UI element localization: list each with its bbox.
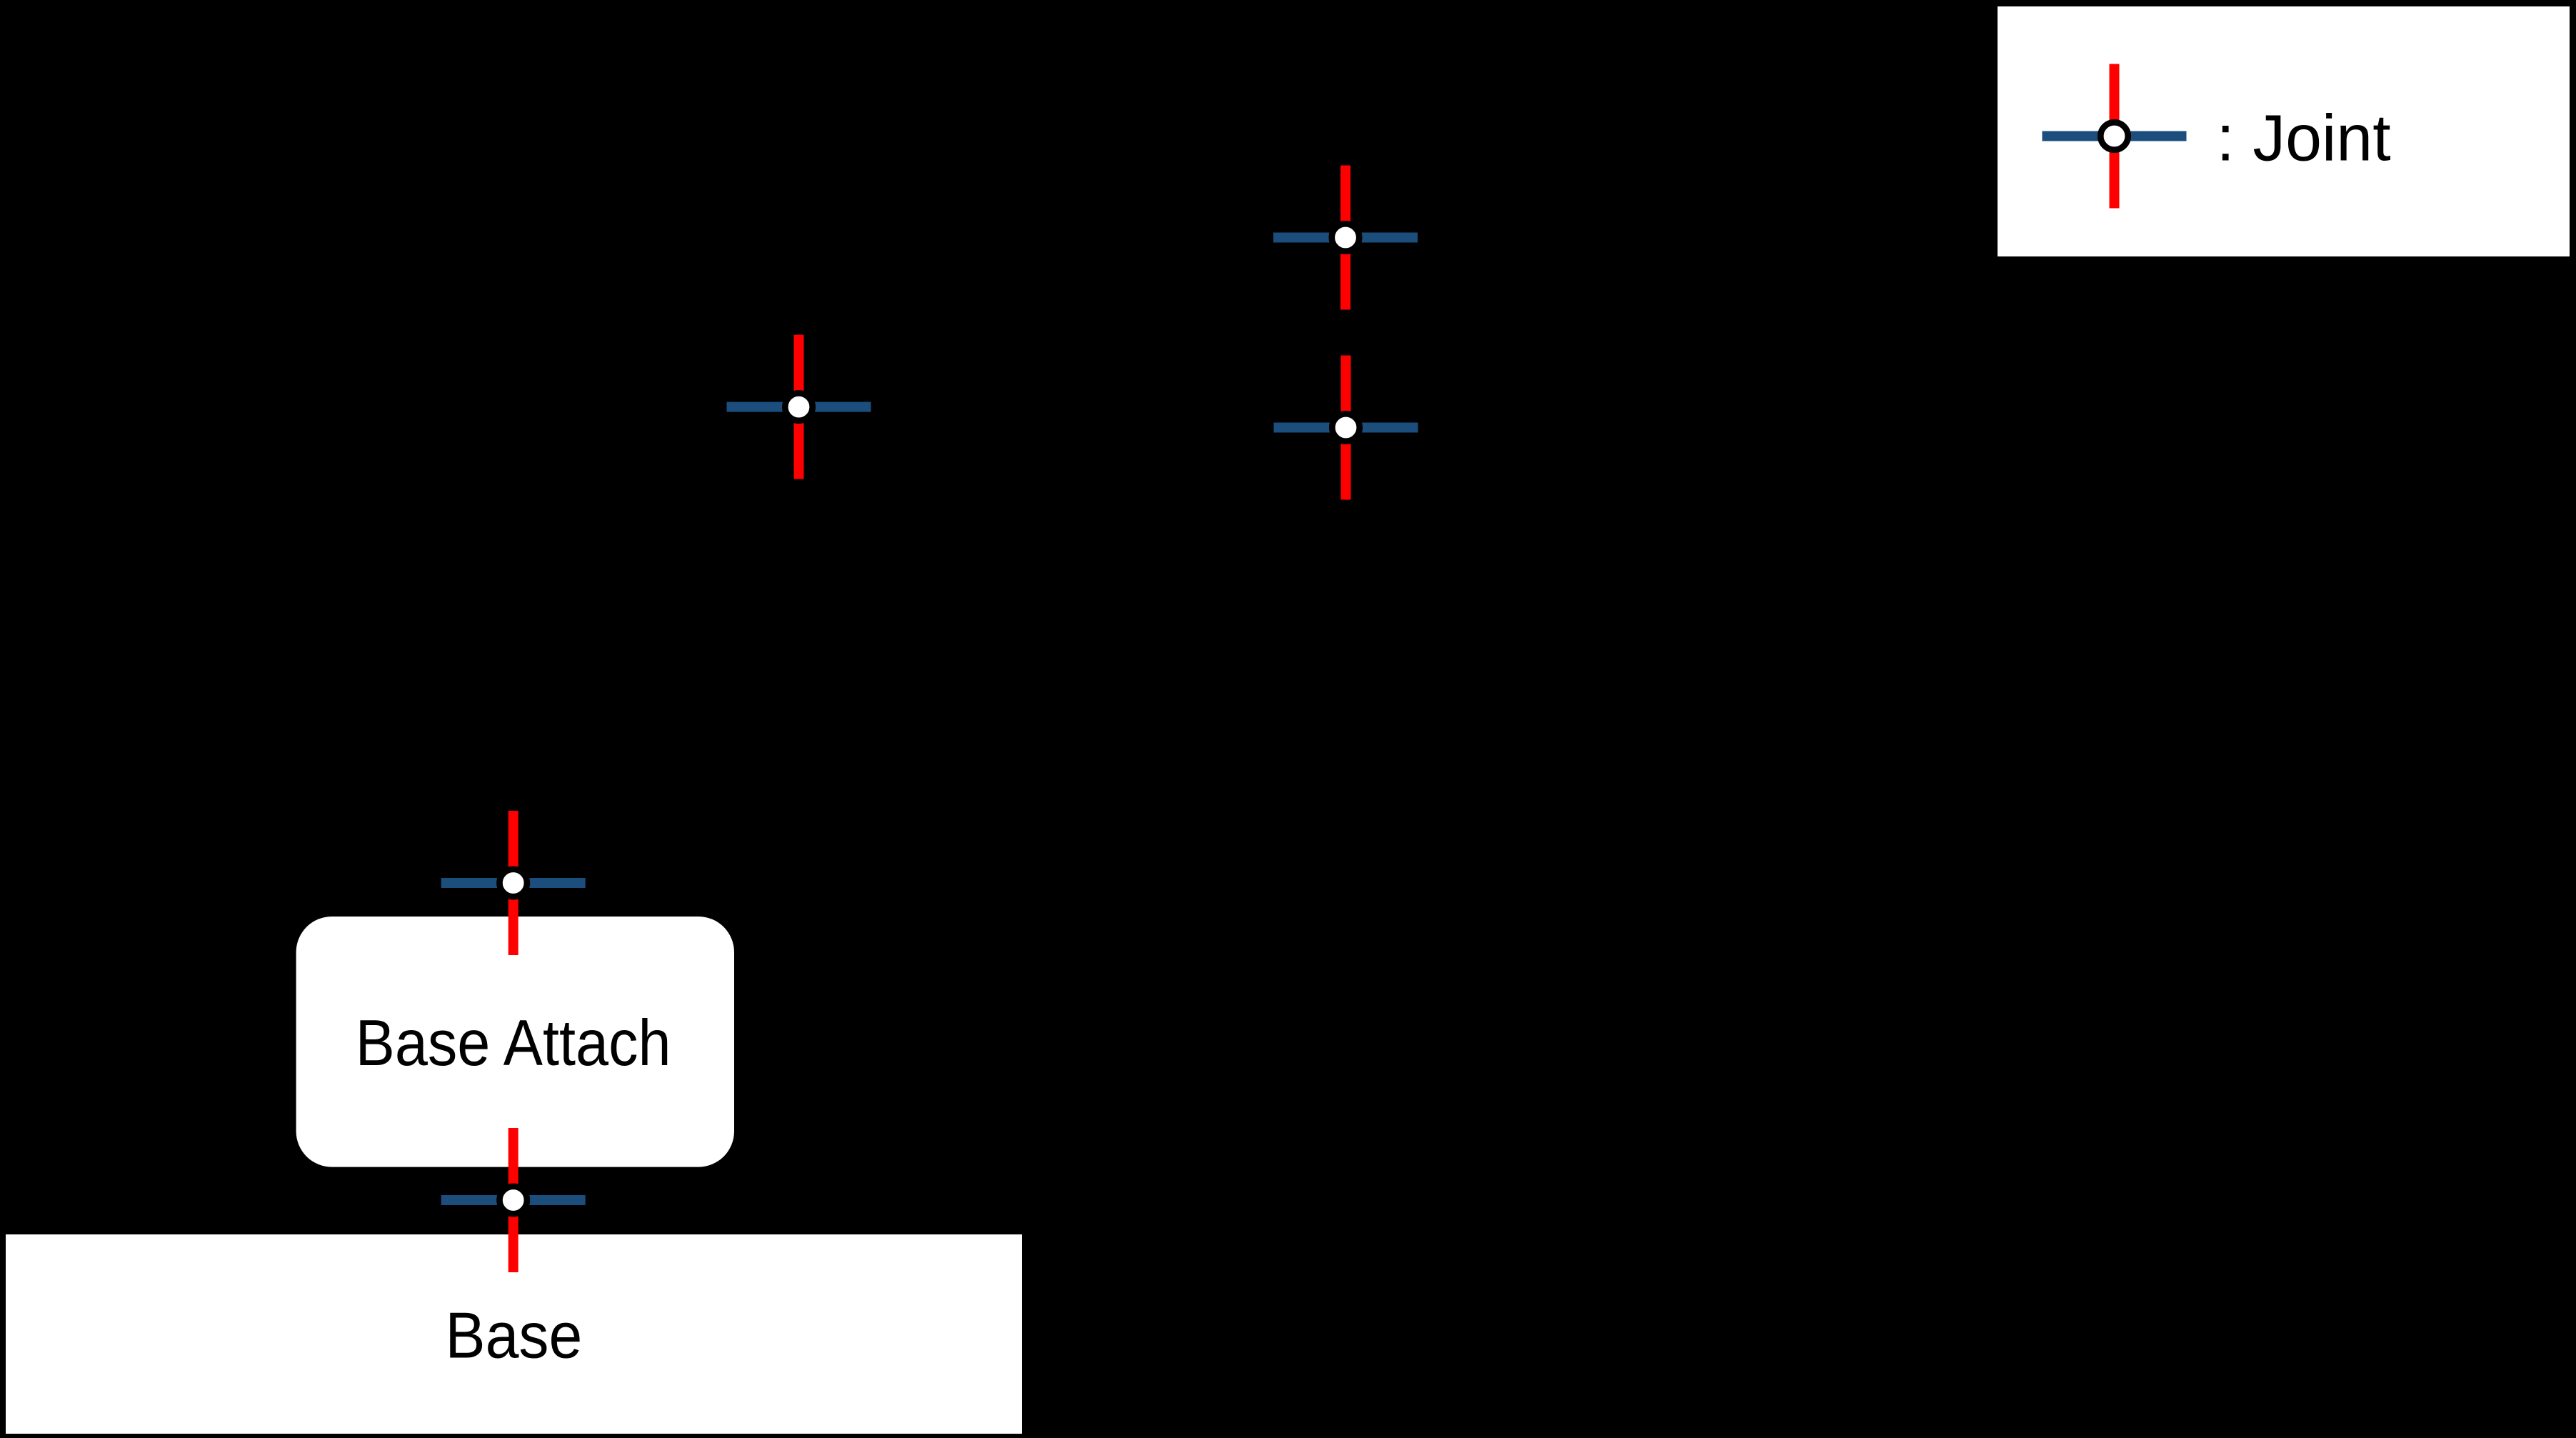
legend joint symbol xyxy=(2043,64,2187,209)
svg-text:Base Attach: Base Attach xyxy=(356,1007,671,1079)
node Base Attach (box) xyxy=(296,917,734,1167)
legend box xyxy=(1998,6,2570,256)
joint J1 (between Base and Base Attach) xyxy=(441,1128,586,1272)
joint J3 (middle of canvas) xyxy=(727,335,871,479)
svg-text:Base: Base xyxy=(445,1299,582,1372)
node Base (box) xyxy=(6,1234,1022,1434)
joint J4 (upper right pair, top) xyxy=(1273,166,1418,310)
svg-text:: Joint: : Joint xyxy=(2217,102,2391,175)
joint J2 (above Base Attach) xyxy=(441,811,586,955)
joint J5 (upper right pair, bottom) xyxy=(1274,356,1418,500)
